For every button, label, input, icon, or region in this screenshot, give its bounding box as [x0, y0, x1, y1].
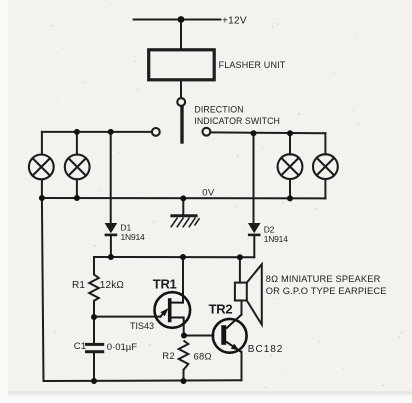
node bus / TR1 B2 [180, 254, 186, 260]
node right feed / D2 branch [251, 130, 257, 136]
node left feed / D1 branch [108, 129, 114, 135]
wire left feed corner down to lamp LP1 [41, 132, 43, 155]
node +12V junction [178, 16, 185, 23]
wire +12V supply rail [134, 19, 221, 21]
wire left return rail [42, 198, 44, 381]
wire TR1 B1 to junction [183, 318, 185, 336]
svg-text:INDICATOR SWITCH: INDICATOR SWITCH [194, 116, 280, 126]
node R1 C1 emitter junction [91, 314, 97, 320]
svg-text:BC182: BC182 [248, 344, 284, 355]
wire drop to lamp LP2 [76, 132, 78, 155]
node bus / speaker [237, 254, 243, 260]
wire lamp LP2 bottom [76, 179, 78, 198]
switch lever [180, 107, 183, 142]
wire speaker drop from bus [239, 257, 241, 282]
svg-text:0·01µF: 0·01µF [107, 342, 137, 353]
speaker LS1 [235, 264, 262, 324]
svg-text:12kΩ: 12kΩ [100, 280, 125, 291]
node left feed / lamp LP2 [74, 129, 80, 135]
wire branch to diode D2 [253, 133, 255, 223]
svg-text:TR1: TR1 [153, 276, 177, 291]
svg-text:+12V: +12V [222, 16, 247, 27]
wire diode D2 to bus corner [253, 236, 255, 257]
svg-text:DIRECTION: DIRECTION [194, 104, 243, 114]
node 0V rail / lamp LP2 [74, 195, 80, 201]
ground stem [182, 199, 184, 215]
capacitor C1 [85, 343, 104, 353]
wire R1 bottom to junction [93, 301, 95, 317]
svg-text:TIS43: TIS43 [130, 321, 154, 331]
svg-text:TR2: TR2 [209, 302, 233, 317]
node 0V rail / ground [180, 195, 186, 201]
wire TR1 B2 to bus [182, 257, 184, 303]
wire lamp LP1 bottom [41, 179, 43, 198]
diode D2 [248, 223, 261, 236]
flasher unit box [149, 50, 215, 80]
resistor R2 [179, 341, 189, 370]
switch pole terminal [177, 98, 185, 106]
lamp LP1 [29, 155, 54, 180]
svg-text:C1: C1 [74, 341, 87, 352]
wire C1 to bottom rail [93, 353, 95, 381]
wire supply to flasher unit [180, 20, 182, 51]
wire lamp LP3 bottom [289, 179, 291, 198]
svg-text:1N914: 1N914 [264, 234, 289, 244]
svg-text:8Ω MINIATURE SPEAKER: 8Ω MINIATURE SPEAKER [266, 274, 381, 284]
node 0V rail / lamp LP3 [287, 195, 293, 201]
lamp LP2 [65, 155, 90, 180]
wire oscillator supply bus [94, 256, 254, 258]
transistor TR2 (BC182 npn) [213, 315, 247, 353]
svg-text:1N914: 1N914 [121, 232, 146, 242]
wire 0V rail [42, 197, 326, 199]
svg-text:FLASHER UNIT: FLASHER UNIT [219, 60, 286, 70]
wire drop to lamp LP3 [289, 133, 291, 154]
svg-text:R1: R1 [72, 280, 85, 291]
svg-text:68Ω: 68Ω [194, 352, 212, 363]
wire bus corner down to R1 [93, 257, 95, 275]
switch right contact [203, 128, 211, 136]
wire lamp LP4 bottom [324, 179, 326, 198]
wire TR2 collector to speaker [241, 300, 243, 314]
transistor TR1 (unijunction) [155, 292, 191, 328]
wire junction to C1 [93, 317, 95, 343]
node right feed / lamp LP3 [287, 130, 293, 136]
svg-text:OR G.P.O TYPE EARPIECE: OR G.P.O TYPE EARPIECE [266, 286, 387, 296]
node TR1 B1 / R2 / TR2 base [181, 333, 187, 339]
wire left feed line [42, 131, 152, 133]
wire diode D1 to bus [110, 236, 112, 257]
lamp LP4 [313, 154, 338, 179]
node bottom rail / R2 [181, 378, 187, 384]
wire junction to TR2 base [184, 335, 213, 337]
wire branch to diode D1 [110, 132, 112, 223]
ground [170, 216, 199, 228]
wire right feed line [211, 131, 326, 134]
svg-text:R2: R2 [162, 351, 175, 362]
wire flasher unit to switch pole [180, 80, 182, 98]
wire right feed corner down to lamp LP4 [324, 133, 326, 154]
resistor R1 [89, 275, 99, 301]
lamp LP3 [278, 154, 303, 179]
svg-text:0V: 0V [202, 187, 215, 198]
node 0V rail / lamp LP1 [39, 195, 45, 201]
switch left contact [152, 128, 160, 136]
node bus / D1 [108, 254, 114, 260]
wire TR1 emitter line [94, 316, 161, 318]
wire bottom rail [44, 379, 242, 382]
wire R2 bottom to rail [183, 370, 185, 381]
diode D1 [105, 223, 118, 236]
node bottom rail / C1 [91, 378, 97, 384]
wire TR2 emitter to bottom rail [241, 352, 243, 381]
